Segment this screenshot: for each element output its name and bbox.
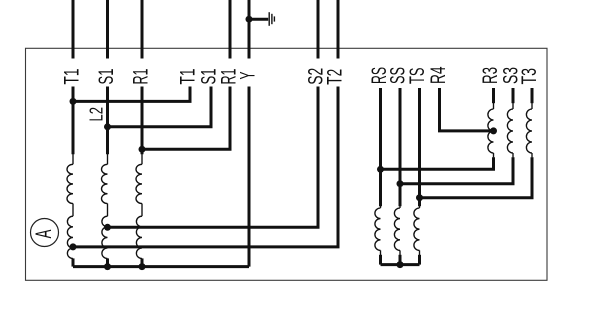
svg-text:T2: T2 (322, 69, 346, 85)
svg-text:R4: R4 (426, 66, 450, 84)
svg-text:T1: T1 (60, 69, 84, 85)
svg-text:T3: T3 (517, 68, 541, 85)
svg-text:Y: Y (236, 72, 260, 80)
svg-text:R1: R1 (129, 69, 153, 85)
svg-text:A: A (31, 229, 56, 238)
svg-text:L2: L2 (87, 107, 107, 122)
svg-text:S1: S1 (94, 69, 118, 85)
